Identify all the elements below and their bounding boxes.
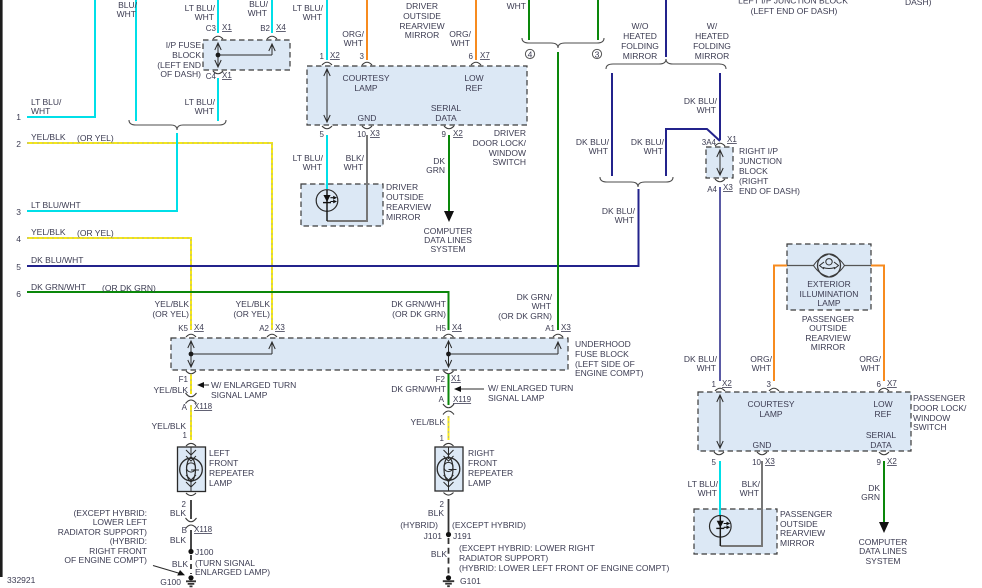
svg-text:PASSENGER: PASSENGER <box>780 509 832 519</box>
svg-text:(HYBRID: LOWER LEFT FRONT OF E: (HYBRID: LOWER LEFT FRONT OF ENGINE COMP… <box>459 563 669 573</box>
svg-text:YEL/BLK: YEL/BLK <box>154 385 189 395</box>
brace merge cyan wires <box>129 120 226 130</box>
svg-text:WHT: WHT <box>248 8 267 18</box>
svg-text:COURTESY: COURTESY <box>747 399 794 409</box>
svg-text:J101: J101 <box>424 531 443 541</box>
svg-text:(OR DK GRN): (OR DK GRN) <box>102 283 156 293</box>
wire DK BLU/WHT junction to passenger pin1 <box>719 187 721 381</box>
svg-text:(OR YEL): (OR YEL) <box>233 309 270 319</box>
svg-text:MIRROR: MIRROR <box>405 30 439 40</box>
driver switch internal arrow <box>324 69 330 122</box>
svg-text:5: 5 <box>320 130 325 139</box>
pin 1/X2 driver switch <box>320 51 341 65</box>
wire BLU/WHT into B2 <box>271 0 273 33</box>
wire BLK to J100 <box>190 530 192 549</box>
svg-text:X1: X1 <box>222 71 232 80</box>
svg-text:332921: 332921 <box>7 575 36 585</box>
right repeater lamp symbol <box>437 447 460 491</box>
svg-text:COURTESY: COURTESY <box>342 73 389 83</box>
pin F2/X1 <box>436 371 462 384</box>
svg-text:W/ ENLARGED TURN: W/ ENLARGED TURN <box>488 383 573 393</box>
wire DK GRN/WHT merged down to A1 <box>557 52 559 330</box>
svg-text:10: 10 <box>357 130 366 139</box>
wire LT BLU/WHT driver pin5 to mirror <box>326 135 328 189</box>
svg-text:WHT: WHT <box>31 106 50 116</box>
svg-text:OUTSIDE: OUTSIDE <box>809 323 847 333</box>
svg-text:X1: X1 <box>222 23 232 32</box>
svg-text:REARVIEW: REARVIEW <box>780 528 825 538</box>
svg-text:X7: X7 <box>887 379 897 388</box>
svg-text:3: 3 <box>360 52 365 61</box>
svg-text:3: 3 <box>595 50 600 60</box>
note arrow w/ enlarged turn signal lamp left <box>197 380 296 400</box>
svg-text:(OR DK GRN): (OR DK GRN) <box>392 309 446 319</box>
svg-text:SERIAL: SERIAL <box>431 103 462 113</box>
svg-text:C4: C4 <box>206 72 217 81</box>
brace merge to wire5 <box>600 177 673 187</box>
svg-text:WHT: WHT <box>344 38 363 48</box>
svg-text:9: 9 <box>877 458 882 467</box>
svg-text:(OR YEL): (OR YEL) <box>77 133 114 143</box>
underhood fuse block <box>171 338 568 370</box>
pin F1 <box>179 371 196 384</box>
svg-text:X1: X1 <box>727 135 737 144</box>
svg-text:MIRROR: MIRROR <box>780 538 814 548</box>
brace merge green options <box>522 38 604 48</box>
svg-text:X3: X3 <box>765 457 775 466</box>
pin 6/X7 driver switch <box>469 51 491 65</box>
svg-text:YEL/BLK: YEL/BLK <box>155 299 190 309</box>
svg-text:WHT: WHT <box>615 215 634 225</box>
svg-text:B: B <box>182 526 187 535</box>
svg-text:LEFT I/P JUNCTION BLOCK: LEFT I/P JUNCTION BLOCK <box>738 0 848 6</box>
svg-text:FRONT: FRONT <box>209 458 238 468</box>
svg-text:X118: X118 <box>194 402 213 411</box>
svg-text:X119: X119 <box>453 395 472 404</box>
svg-text:DK GRN/WHT: DK GRN/WHT <box>391 384 446 394</box>
svg-text:EXTERIOR: EXTERIOR <box>807 279 850 289</box>
svg-text:FUSE BLOCK: FUSE BLOCK <box>575 349 629 359</box>
svg-text:GRN: GRN <box>426 165 445 175</box>
svg-text:GND: GND <box>753 440 772 450</box>
svg-text:REPEATER: REPEATER <box>209 468 254 478</box>
wire LT BLU/WHT from C4 to brace <box>217 78 219 121</box>
pin 5 driver switch <box>320 126 332 139</box>
wire ORG/WHT lamp right leg <box>871 266 884 382</box>
passenger mirror LED <box>710 516 732 547</box>
svg-text:WHT: WHT <box>752 363 771 373</box>
svg-text:DRIVER: DRIVER <box>406 1 438 11</box>
svg-text:WHT: WHT <box>532 301 551 311</box>
driver mirror name <box>386 182 431 222</box>
connector A/X118 <box>182 393 213 412</box>
svg-text:FOLDING: FOLDING <box>621 41 659 51</box>
w/ heated folding mirror label <box>693 21 731 61</box>
svg-text:WHT: WHT <box>698 488 717 498</box>
svg-text:SYSTEM: SYSTEM <box>866 556 901 566</box>
driver door lock/window switch box <box>307 66 527 125</box>
wire BLK/WHT passenger pin10 to mirror <box>721 461 763 546</box>
wire DK BLU/WHT w/ option into X1 <box>719 73 721 140</box>
svg-text:DATA LINES: DATA LINES <box>859 546 907 556</box>
svg-text:(EXCEPT HYBRID: LOWER RIGHT: (EXCEPT HYBRID: LOWER RIGHT <box>459 543 595 553</box>
svg-text:MIRROR: MIRROR <box>695 51 729 61</box>
svg-text:UNDERHOOD: UNDERHOOD <box>575 339 631 349</box>
wire YEL/BLK from F1 <box>190 374 192 394</box>
svg-text:GRN: GRN <box>861 492 880 502</box>
svg-text:YEL/BLK: YEL/BLK <box>31 227 66 237</box>
underhood internal bus left <box>188 341 275 367</box>
svg-text:SWITCH: SWITCH <box>492 157 526 167</box>
wire DK GRN/WHT from F2 <box>448 374 450 405</box>
wire DK GRN/WHT option 4 <box>528 0 530 40</box>
svg-text:PASSENGER: PASSENGER <box>913 393 965 403</box>
svg-text:WHT: WHT <box>644 146 663 156</box>
svg-text:X2: X2 <box>887 457 897 466</box>
svg-text:2: 2 <box>16 139 21 149</box>
location note left ground <box>58 508 147 565</box>
pin 6/X7 passenger switch <box>877 379 898 391</box>
svg-text:SIGNAL LAMP: SIGNAL LAMP <box>488 393 545 403</box>
splice J101/J191 <box>424 531 472 541</box>
svg-text:REPEATER: REPEATER <box>468 468 513 478</box>
wire BLK/WHT driver pin10 to mirror <box>327 135 367 221</box>
svg-text:BLK: BLK <box>428 508 444 518</box>
svg-text:YEL/BLK: YEL/BLK <box>31 132 66 142</box>
brace split heated options <box>606 59 726 69</box>
svg-text:5: 5 <box>712 458 717 467</box>
svg-text:6: 6 <box>469 52 474 61</box>
wire 2 YEL/BLK horizontal to A2 <box>27 143 272 330</box>
svg-text:(RIGHT: (RIGHT <box>739 176 768 186</box>
passenger door lock/window switch box <box>698 392 911 451</box>
svg-text:10: 10 <box>752 458 761 467</box>
svg-text:BLK: BLK <box>170 535 186 545</box>
svg-text:DK GRN/WHT: DK GRN/WHT <box>31 282 86 292</box>
connector A/X119 <box>439 395 472 415</box>
svg-text:LAMP: LAMP <box>354 83 377 93</box>
pin 5 passenger switch <box>712 452 724 467</box>
wire BLK left lamp down <box>190 500 192 519</box>
svg-text:A: A <box>182 403 188 412</box>
left repeater lamp symbol <box>180 447 203 491</box>
svg-text:X3: X3 <box>370 129 380 138</box>
svg-text:ENLARGED LAMP): ENLARGED LAMP) <box>195 567 270 577</box>
svg-text:SIGNAL LAMP: SIGNAL LAMP <box>211 390 268 400</box>
wire BLK right lamp down <box>448 499 450 532</box>
svg-text:WHT: WHT <box>589 146 608 156</box>
right repeater lamp name <box>468 448 513 488</box>
svg-text:WHT: WHT <box>451 38 470 48</box>
svg-text:X2: X2 <box>330 51 340 60</box>
junction block internal arrow <box>717 150 723 175</box>
svg-text:1: 1 <box>712 380 717 389</box>
svg-text:BLOCK: BLOCK <box>739 166 768 176</box>
svg-text:LAMP: LAMP <box>817 298 840 308</box>
passenger switch internal arrow <box>717 395 723 448</box>
svg-text:RIGHT I/P: RIGHT I/P <box>739 146 778 156</box>
note arrow w/ enlarged turn signal lamp right <box>454 383 573 403</box>
pin C3/X1 <box>206 23 233 39</box>
svg-text:LAMP: LAMP <box>468 478 491 488</box>
svg-text:SWITCH: SWITCH <box>913 422 947 432</box>
wire 6 DK GRN/WHT horizontal to H5 <box>27 292 449 330</box>
pin C4/X1 <box>206 71 233 81</box>
svg-text:W/: W/ <box>707 21 718 31</box>
svg-text:4: 4 <box>16 234 21 244</box>
svg-text:DRIVER: DRIVER <box>386 182 418 192</box>
svg-text:BLK: BLK <box>170 508 186 518</box>
pin A4/X3 junction block <box>707 179 733 194</box>
svg-text:A4: A4 <box>707 185 717 194</box>
svg-text:3: 3 <box>767 380 772 389</box>
svg-text:6: 6 <box>16 289 21 299</box>
svg-text:(LEFT END OF DASH): (LEFT END OF DASH) <box>751 6 838 16</box>
svg-text:FOLDING: FOLDING <box>693 41 731 51</box>
svg-text:WHT: WHT <box>117 9 136 19</box>
svg-text:SERIAL: SERIAL <box>866 430 897 440</box>
arrow from note to ground wire <box>153 566 185 576</box>
svg-text:(OR YEL): (OR YEL) <box>152 309 189 319</box>
passenger switch name <box>913 393 967 432</box>
svg-text:WHT: WHT <box>303 162 322 172</box>
wire LT BLU/WHT passenger pin5 to mirror <box>719 461 721 516</box>
svg-text:G101: G101 <box>460 576 481 586</box>
svg-text:(HYBRID): (HYBRID) <box>400 520 438 530</box>
wire DK BLU/WHT top into brace <box>665 0 667 57</box>
svg-text:OF DASH): OF DASH) <box>160 69 201 79</box>
svg-text:HEATED: HEATED <box>623 31 657 41</box>
svg-text:B2: B2 <box>260 24 270 33</box>
svg-text:OUTSIDE: OUTSIDE <box>386 192 424 202</box>
wire YEL/BLK to left repeater <box>190 405 192 440</box>
wire LT BLU/WHT into C3 <box>217 0 219 33</box>
svg-text:W/ ENLARGED TURN: W/ ENLARGED TURN <box>211 380 296 390</box>
wire BLK dashed to G101 <box>448 538 450 574</box>
svg-text:1: 1 <box>183 431 188 440</box>
svg-text:DATA: DATA <box>435 113 457 123</box>
wire DK GRN/WHT option 3 <box>597 0 599 40</box>
location note right ground <box>459 543 669 573</box>
I/P fuse block label <box>157 40 201 79</box>
left repeater lamp name <box>209 448 254 488</box>
svg-text:4: 4 <box>528 50 533 60</box>
arrow to computer data lines right <box>879 522 889 533</box>
wire 1 LT BLU/WHT horizontal <box>27 0 95 117</box>
svg-text:OF ENGINE COMPT): OF ENGINE COMPT) <box>64 555 147 565</box>
svg-text:WHT: WHT <box>740 488 759 498</box>
pin 3 passenger switch <box>767 380 779 391</box>
svg-text:1: 1 <box>320 52 325 61</box>
right front repeater lamp box <box>435 447 463 491</box>
svg-text:(OR YEL): (OR YEL) <box>77 228 114 238</box>
driver outside rearview mirror box <box>301 184 383 226</box>
wire 4 YEL/BLK horizontal to K5 <box>27 238 191 330</box>
computer data lines system label left <box>424 226 473 254</box>
svg-text:HEATED: HEATED <box>695 31 729 41</box>
svg-text:9: 9 <box>442 130 447 139</box>
passenger mirror title <box>802 314 854 352</box>
svg-text:F2: F2 <box>436 375 446 384</box>
ground G101 <box>443 575 481 586</box>
svg-text:X2: X2 <box>453 129 463 138</box>
wire ORG/WHT into driver switch pin 6 <box>475 0 477 60</box>
svg-text:WHT: WHT <box>697 105 716 115</box>
svg-text:DASH): DASH) <box>905 0 932 7</box>
wire BLK dashed to G100 <box>190 555 192 574</box>
svg-text:END OF DASH): END OF DASH) <box>739 186 800 196</box>
svg-text:A2: A2 <box>259 324 269 333</box>
svg-text:SYSTEM: SYSTEM <box>431 244 466 254</box>
svg-text:WHT: WHT <box>507 1 526 11</box>
pin 3 driver switch <box>360 52 372 65</box>
driver switch name <box>473 128 527 167</box>
svg-text:LEFT: LEFT <box>209 448 230 458</box>
pin H5/X4 <box>436 323 463 337</box>
pin 10/X3 driver switch <box>357 126 380 139</box>
I/P fuse block <box>203 40 290 70</box>
svg-text:LOW: LOW <box>464 73 483 83</box>
svg-text:WHT: WHT <box>697 363 716 373</box>
svg-text:X2: X2 <box>722 379 732 388</box>
wire DK GRN passenger pin9 to data lines <box>883 461 885 523</box>
pin A2/X3 <box>259 323 285 337</box>
svg-text:1: 1 <box>440 434 445 443</box>
option circle 4 <box>525 49 534 59</box>
svg-text:F1: F1 <box>179 375 189 384</box>
pin A1/X3 <box>545 323 571 337</box>
svg-text:RADIATOR SUPPORT): RADIATOR SUPPORT) <box>459 553 548 563</box>
svg-text:WHT: WHT <box>195 106 214 116</box>
pin 9/X2 passenger switch <box>877 452 898 467</box>
svg-text:I/P FUSE: I/P FUSE <box>166 40 202 50</box>
wire YEL/BLK to right repeater <box>448 416 450 440</box>
page edge bar <box>0 0 3 577</box>
option circle 3 <box>592 49 601 59</box>
svg-text:LOWER LEFT: LOWER LEFT <box>93 517 147 527</box>
exterior lamp symbol <box>787 254 871 277</box>
driver outside rearview mirror title <box>399 1 444 40</box>
svg-text:RIGHT: RIGHT <box>468 448 494 458</box>
splice J100 <box>188 547 213 557</box>
svg-text:FRONT: FRONT <box>468 458 497 468</box>
pin 9/X2 driver switch <box>442 126 464 139</box>
svg-text:LT BLU/WHT: LT BLU/WHT <box>31 200 81 210</box>
underhood internal bus right <box>445 341 561 367</box>
svg-text:X4: X4 <box>276 23 286 32</box>
svg-text:YEL/BLK: YEL/BLK <box>236 299 271 309</box>
right I/P junction block <box>706 147 733 178</box>
pin 10/X3 passenger switch <box>752 452 775 467</box>
svg-text:6: 6 <box>877 380 882 389</box>
pin 2 left lamp <box>182 493 196 509</box>
svg-text:DATA: DATA <box>870 440 892 450</box>
svg-text:5: 5 <box>16 262 21 272</box>
pin 2 right lamp <box>440 493 454 510</box>
svg-text:BLOCK: BLOCK <box>172 50 201 60</box>
svg-text:YEL/BLK: YEL/BLK <box>152 421 187 431</box>
svg-text:GND: GND <box>358 113 377 123</box>
passenger switch internal labels <box>747 399 896 450</box>
note turn signal enlarged lamp <box>195 558 270 577</box>
arrow to computer data lines <box>444 211 454 222</box>
I/P fuse block internal bus <box>215 43 275 67</box>
svg-text:REF: REF <box>466 83 483 93</box>
svg-text:A1: A1 <box>545 324 555 333</box>
svg-text:X118: X118 <box>194 525 213 534</box>
wire DK GRN driver pin9 to data lines <box>448 135 450 212</box>
driver switch internal labels <box>342 73 483 123</box>
svg-text:(OR DK GRN): (OR DK GRN) <box>498 311 552 321</box>
svg-text:X7: X7 <box>480 51 490 60</box>
svg-text:WHT: WHT <box>303 12 322 22</box>
computer data lines system label right <box>859 537 908 566</box>
wire DK BLU/WHT w/o option down <box>611 73 613 176</box>
svg-text:3A4: 3A4 <box>702 138 717 147</box>
pin 1 right lamp <box>440 434 454 446</box>
svg-text:BLK: BLK <box>172 559 188 569</box>
svg-text:REF: REF <box>875 409 892 419</box>
svg-text:C3: C3 <box>206 24 217 33</box>
svg-text:JUNCTION: JUNCTION <box>739 156 782 166</box>
wire LT BLU/WHT into driver switch pin 1 <box>326 0 328 60</box>
svg-text:WHT: WHT <box>861 363 880 373</box>
svg-text:(HYBRID:: (HYBRID: <box>110 536 147 546</box>
svg-text:X3: X3 <box>561 323 571 332</box>
svg-text:1: 1 <box>16 112 21 122</box>
wire 3 LT BLU/WHT from brace <box>27 133 177 211</box>
svg-text:J191: J191 <box>453 531 472 541</box>
svg-text:(EXCEPT HYBRID): (EXCEPT HYBRID) <box>452 520 526 530</box>
svg-text:3: 3 <box>16 207 21 217</box>
svg-text:OUTSIDE: OUTSIDE <box>403 11 441 21</box>
svg-text:BLK: BLK <box>431 549 447 559</box>
w/o heated folding mirror label <box>621 21 659 61</box>
svg-text:ENGINE COMPT): ENGINE COMPT) <box>575 368 644 378</box>
pin 3A4/X1 junction block <box>702 135 738 147</box>
svg-text:DRIVER: DRIVER <box>494 128 526 138</box>
connector B/X118 <box>182 518 213 535</box>
svg-text:X4: X4 <box>194 323 204 332</box>
underhood fuse block name <box>575 339 644 378</box>
hybrid branch labels <box>400 520 526 530</box>
ground G100 <box>160 575 196 587</box>
svg-text:X4: X4 <box>452 323 462 332</box>
pin K5/X4 <box>178 323 204 337</box>
svg-text:YEL/BLK: YEL/BLK <box>411 417 446 427</box>
wire ORG/WHT into driver switch pin 3 <box>366 0 368 60</box>
exterior lamp name <box>800 279 859 308</box>
svg-text:G100: G100 <box>160 577 181 587</box>
svg-text:DOOR LOCK/: DOOR LOCK/ <box>913 403 967 413</box>
wire DK BLU/WHT up and over to X1 <box>666 129 720 176</box>
svg-text:WHT: WHT <box>195 12 214 22</box>
svg-text:MIRROR: MIRROR <box>811 342 845 352</box>
wire ORG/WHT lamp left leg <box>774 266 787 382</box>
svg-text:DK BLU/WHT: DK BLU/WHT <box>31 255 83 265</box>
pin B2/X4 <box>260 23 286 39</box>
svg-text:A: A <box>439 395 445 404</box>
svg-text:X1: X1 <box>451 374 461 383</box>
junction block name <box>739 146 800 196</box>
svg-text:LOW: LOW <box>873 399 892 409</box>
svg-text:DK GRN/WHT: DK GRN/WHT <box>391 299 446 309</box>
passenger mirror name <box>780 509 832 548</box>
svg-text:LAMP: LAMP <box>759 409 782 419</box>
svg-text:DOOR LOCK/: DOOR LOCK/ <box>473 138 527 148</box>
svg-text:X3: X3 <box>275 323 285 332</box>
svg-text:H5: H5 <box>436 324 447 333</box>
